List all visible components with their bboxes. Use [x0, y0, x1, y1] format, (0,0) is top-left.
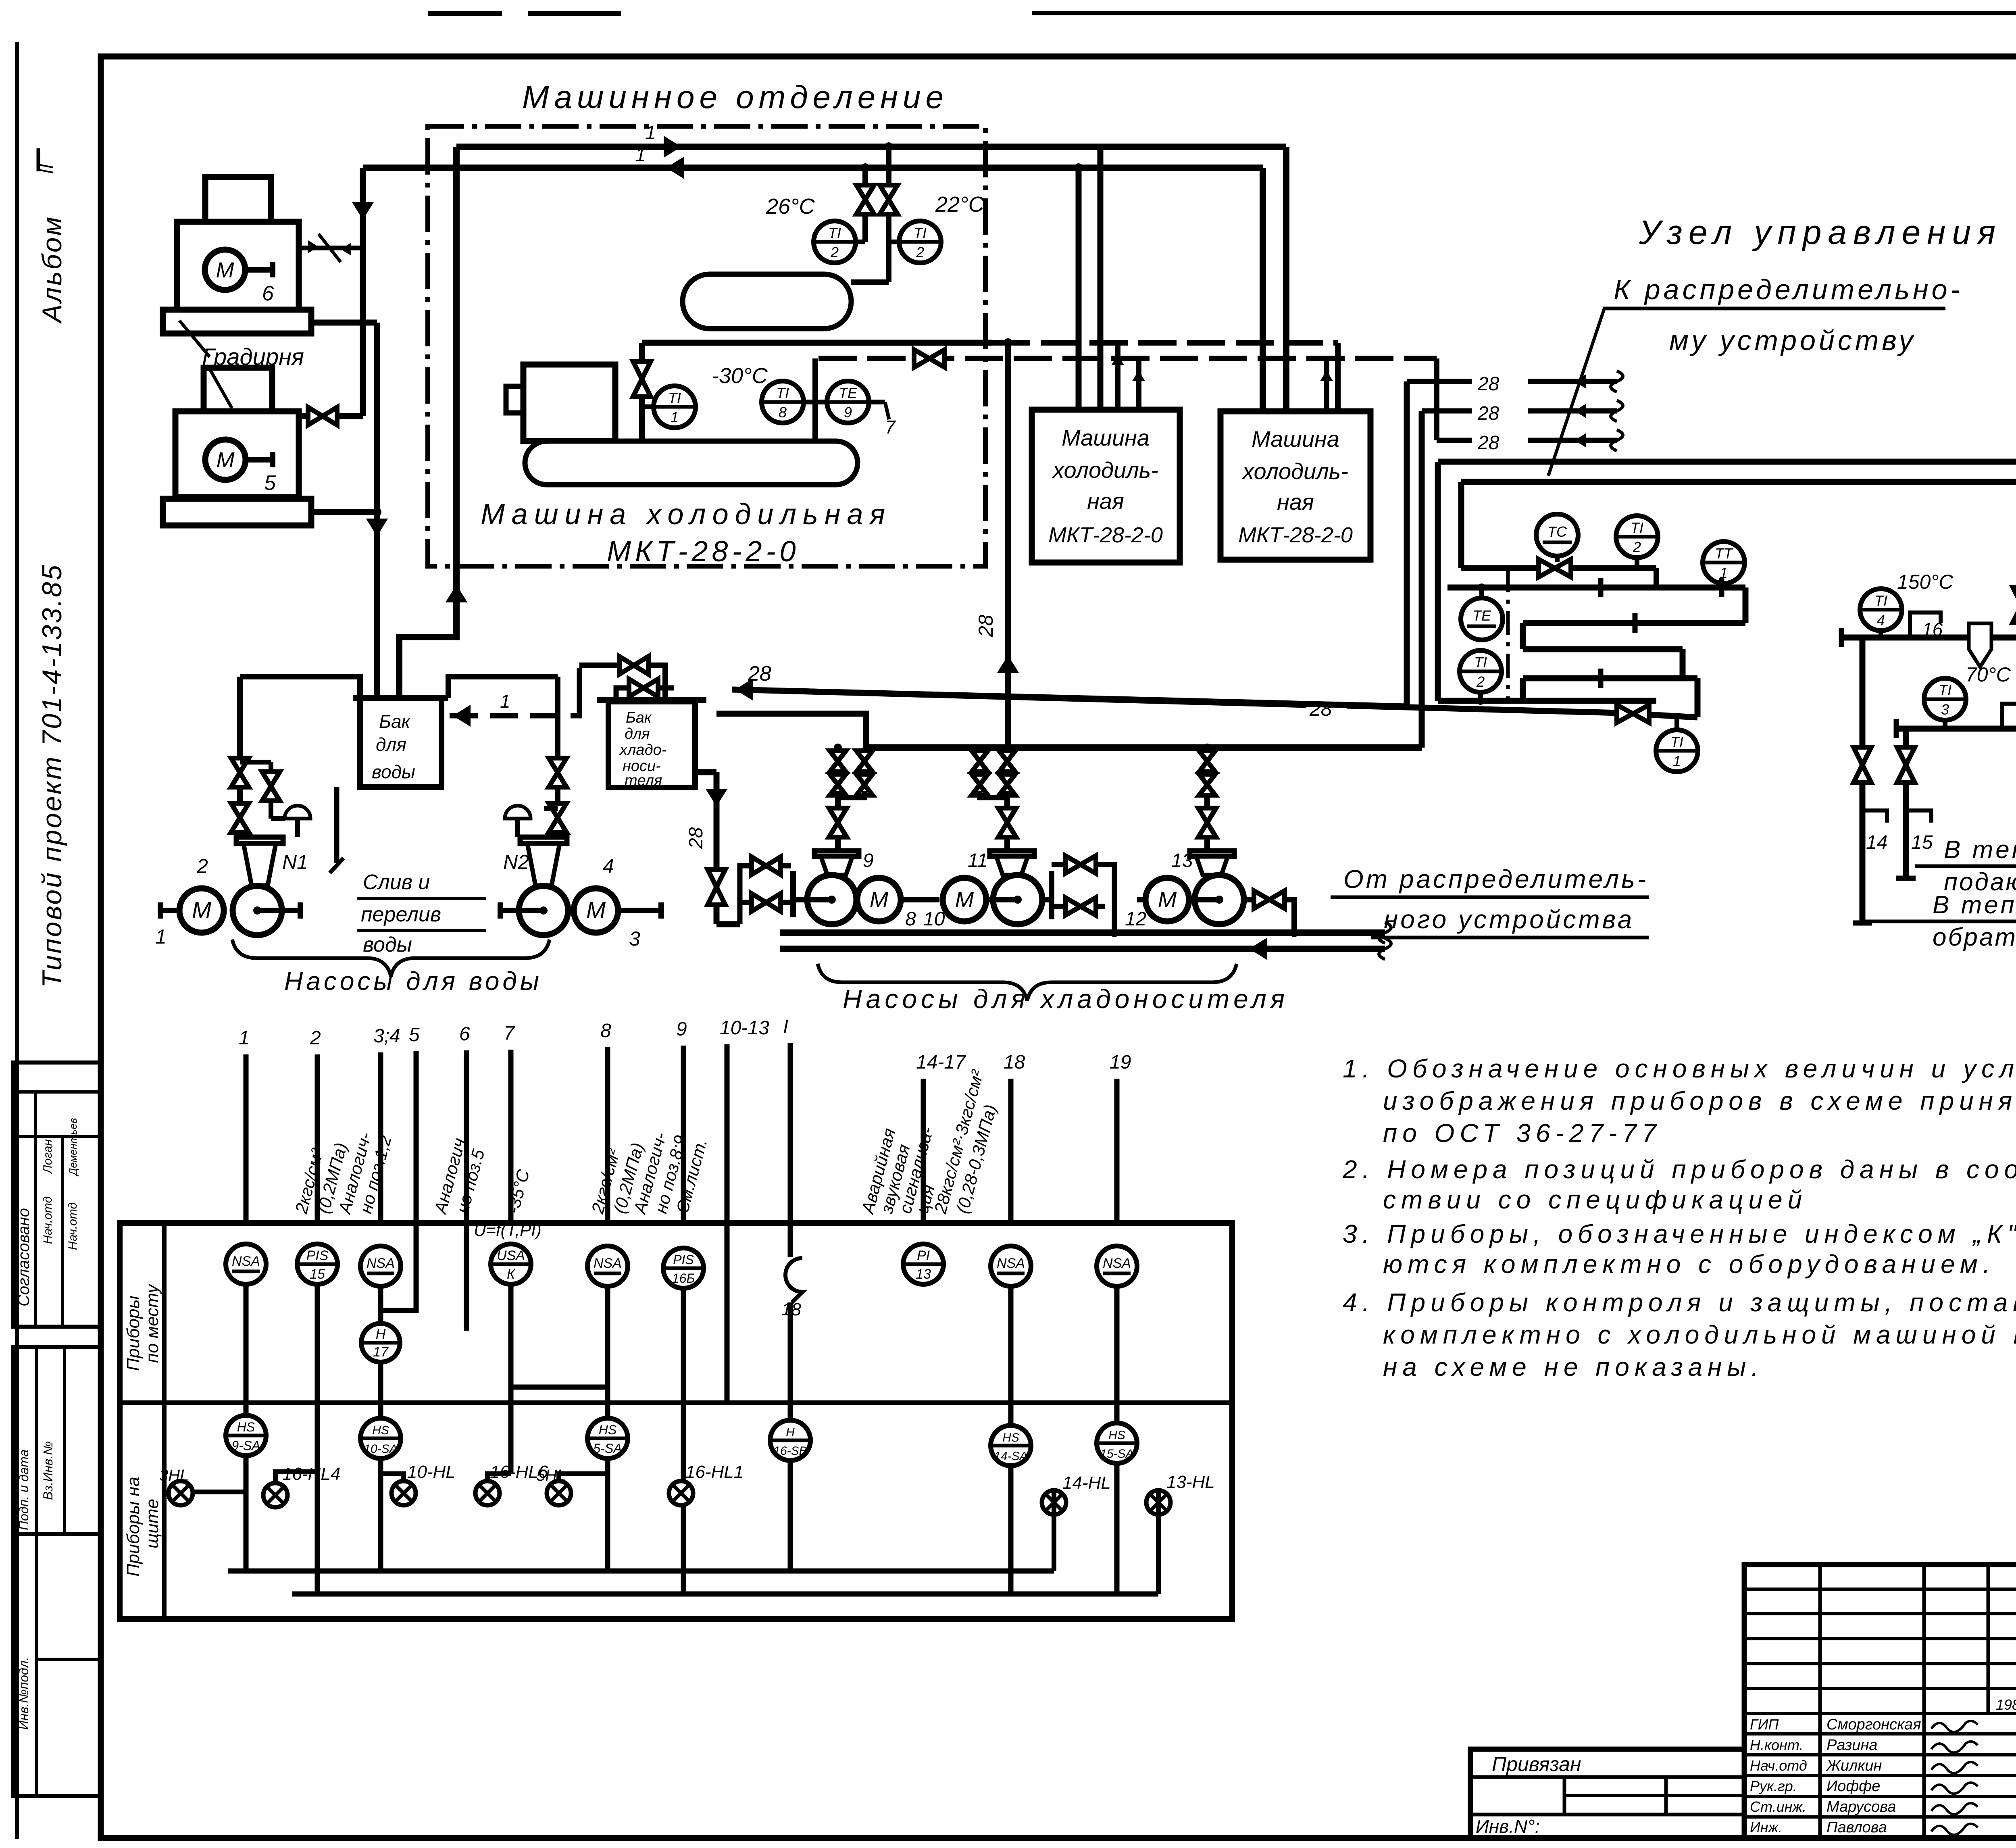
- svg-text:Машина холодильная: Машина холодильная: [481, 498, 891, 531]
- svg-text:Приборы на: Приборы на: [123, 1477, 143, 1577]
- suction column pump3: [1204, 748, 1210, 851]
- svg-text:ная: ная: [1277, 489, 1314, 515]
- svg-text:3;4: 3;4: [373, 1025, 400, 1047]
- svg-text:Нач.отд: Нач.отд: [66, 1202, 79, 1250]
- pipe 1 riser to machine box 3: [1283, 147, 1289, 411]
- svg-text:1984: 1984: [1996, 1696, 2016, 1713]
- svg-text:ТI: ТI: [1939, 682, 1951, 698]
- svg-text:комплектно с холодильной ма: комплектно с холодильной машиной МКТ-28-…: [1383, 1320, 2016, 1349]
- svg-text:7: 7: [885, 417, 896, 438]
- water pump 1 hat: [236, 837, 283, 844]
- brine return line 28 into tank: [732, 690, 1407, 706]
- svg-text:1: 1: [671, 409, 679, 425]
- 28 stub line 2: [1422, 408, 1472, 414]
- brine pump 3: [1195, 875, 1244, 924]
- lamp 10-HL: [392, 1481, 416, 1505]
- fan motor M6: [205, 250, 245, 290]
- svg-text:14-17: 14-17: [916, 1052, 966, 1073]
- svg-text:16Б: 16Б: [672, 1271, 695, 1285]
- svg-text:5: 5: [409, 1024, 420, 1046]
- instrument NSA col1: [226, 1244, 266, 1284]
- instrument PIS-15: [297, 1244, 337, 1284]
- svg-text:К распределительно-: К распределительно-: [1614, 274, 1963, 305]
- svg-text:17: 17: [373, 1344, 389, 1360]
- svg-text:ТI: ТI: [1474, 654, 1487, 671]
- svg-text:6: 6: [459, 1023, 470, 1045]
- bracket 14: [1862, 810, 1887, 823]
- brine pump suction manifold: [866, 744, 1422, 751]
- svg-text:хладо-: хладо-: [619, 742, 666, 758]
- svg-text:2: 2: [1633, 539, 1641, 555]
- svg-text:Нач.отд: Нач.отд: [41, 1196, 54, 1244]
- suction column pump1 pair: [835, 748, 841, 794]
- svg-text:Слив и: Слив и: [363, 871, 430, 894]
- svg-text:Марусова: Марусова: [1826, 1798, 1896, 1815]
- risers to machine box 3 from headers: [1324, 358, 1329, 411]
- 28 stub line 1: [1407, 379, 1472, 384]
- svg-text:НS: НS: [237, 1420, 255, 1434]
- svg-text:МКТ-28-2-0: МКТ-28-2-0: [607, 535, 800, 568]
- header2 riser to stub3: [1434, 358, 1439, 440]
- brace water pumps: [232, 940, 550, 977]
- svg-text:Рук.гр.: Рук.гр.: [1750, 1778, 1797, 1794]
- svg-text:1: 1: [635, 144, 646, 166]
- lamp 14-HL: [1042, 1490, 1066, 1515]
- svg-text:НS: НS: [1002, 1431, 1019, 1444]
- instrument HS-10-SA: [360, 1418, 401, 1458]
- svg-text:МКТ-28-2-0: МКТ-28-2-0: [1238, 523, 1353, 547]
- svg-text:70°С: 70°С: [1966, 663, 2011, 686]
- suction column pump2 pair: [977, 748, 983, 794]
- instrument TI-4: [1860, 589, 1902, 631]
- svg-text:воды: воды: [372, 761, 415, 782]
- svg-text:3: 3: [629, 927, 640, 950]
- water pump 2: [519, 886, 568, 935]
- svg-text:9-SА: 9-SА: [231, 1438, 260, 1453]
- cooling tower chimney: [205, 177, 271, 222]
- svg-text:3HL: 3HL: [159, 1467, 189, 1484]
- instrument TI-2b: [899, 221, 941, 263]
- stub2 riser down to pump suction manifold: [1419, 411, 1425, 748]
- svg-text:Узел управления: Узел управления: [1639, 213, 2002, 251]
- instrument TE: [1461, 598, 1503, 640]
- instrument TI-3: [1924, 678, 1966, 720]
- instrument TI-2a: [814, 221, 856, 263]
- svg-text:Бак: Бак: [626, 709, 652, 726]
- riser x990 into tank top: [396, 697, 402, 698]
- svg-text:9: 9: [844, 404, 852, 421]
- pump2-3 bypass valves: [1042, 897, 1052, 902]
- svg-text:NSА: NSА: [997, 1256, 1025, 1271]
- svg-text:М: М: [870, 887, 889, 912]
- title block Привязан table: [1470, 1749, 1744, 1838]
- svg-text:ная: ная: [1087, 488, 1124, 514]
- svg-text:18: 18: [1004, 1052, 1025, 1073]
- svg-text:16: 16: [1922, 619, 1943, 640]
- brine tank Бак для хладоносителя: [597, 697, 706, 703]
- svg-text:Нач.отд: Нач.отд: [1750, 1757, 1807, 1774]
- svg-text:3: 3: [1941, 701, 1949, 718]
- instrument panel box: [120, 1223, 1232, 1619]
- svg-text:РI: РI: [917, 1248, 930, 1263]
- svg-text:-30°С: -30°С: [712, 364, 768, 388]
- svg-text:по месту: по месту: [142, 1283, 162, 1363]
- svg-text:ются комплектно с оборудова: ются комплектно с оборудованием.: [1383, 1250, 1995, 1279]
- valve branch to TI-2a from pipe2: [862, 168, 868, 242]
- svg-text:3. Приборы, обозначенные инд: 3. Приборы, обозначенные индексом „К" по…: [1343, 1219, 2016, 1248]
- brine pump motor M: [857, 878, 901, 921]
- coil U-turn right 2: [1680, 649, 1686, 678]
- svg-text:М: М: [1158, 887, 1177, 912]
- suction pipe to bypass: [716, 921, 740, 927]
- svg-text:для: для: [376, 734, 406, 755]
- instrument H-17: [361, 1323, 400, 1362]
- coil riser: [1654, 568, 1659, 588]
- svg-text:4: 4: [603, 855, 614, 877]
- pipe 2 (condenser water in) horizontal: [363, 165, 1263, 171]
- svg-text:М: М: [586, 897, 606, 923]
- coil unit bottom: [1438, 698, 1656, 704]
- svg-text:РIS: РIS: [306, 1248, 329, 1263]
- coil pass 1: [1447, 585, 1745, 591]
- svg-text:НS: НS: [372, 1424, 389, 1437]
- svg-text:Согласовано: Согласовано: [15, 1208, 33, 1306]
- cooling tower upper unit: [177, 222, 299, 310]
- compressor block: [523, 365, 615, 441]
- svg-text:8: 8: [905, 908, 916, 930]
- svg-text:13-НL: 13-НL: [1166, 1472, 1215, 1492]
- svg-text:Машина: Машина: [1062, 425, 1150, 450]
- coil pass 3: [1523, 646, 1683, 652]
- svg-text:5: 5: [264, 471, 276, 495]
- instrument HS-9-SA: [226, 1415, 266, 1456]
- svg-text:Бак: Бак: [379, 711, 411, 732]
- sheet left edge: [15, 42, 19, 1839]
- instrument TI-2 top: [1616, 516, 1658, 558]
- svg-text:1. Обозначение основных вели: 1. Обозначение основных величин и условн…: [1343, 1054, 2016, 1083]
- coil unit inner line L2: [1461, 479, 2016, 485]
- stub1 riser down to brine return line: [1404, 381, 1410, 706]
- lamp 13-HL: [1146, 1490, 1170, 1515]
- machine box 3 МКТ-28-2-0: [1220, 411, 1370, 560]
- instrument PI-13: [903, 1244, 943, 1284]
- svg-text:холодиль-: холодиль-: [1052, 457, 1158, 483]
- svg-text:ТТ: ТТ: [1715, 545, 1734, 562]
- pump1 suction tick: [790, 871, 796, 917]
- instrument NSA col3: [360, 1246, 401, 1286]
- svg-text:Сморгонская: Сморгонская: [1826, 1716, 1921, 1733]
- dash-dot stem under TC valve: [1506, 568, 1510, 699]
- pipe lower slab to riser junction: [311, 509, 377, 515]
- instrument NSA col 18: [991, 1246, 1031, 1286]
- svg-text:щите: щите: [142, 1499, 162, 1548]
- svg-text:28: 28: [685, 827, 707, 849]
- svg-text:15: 15: [1911, 832, 1933, 853]
- coil pass 2: [1523, 620, 1745, 626]
- pipe 1 (condenser water out) horizontal: [456, 144, 1286, 150]
- svg-text:1: 1: [155, 925, 167, 948]
- brine pump motor M3k: [1145, 878, 1189, 921]
- svg-text:NSА: NSА: [232, 1254, 260, 1269]
- pipe slab1 to riser x935: [311, 320, 377, 326]
- svg-text:ного устройства: ного устройства: [1384, 905, 1634, 934]
- actuator valve on pump2 feed: [544, 806, 558, 811]
- svg-text:Приборы: Приборы: [123, 1296, 143, 1371]
- svg-text:От распределитель-: От распределитель-: [1343, 865, 1648, 894]
- middle section: [204, 368, 272, 411]
- svg-text:ТI: ТI: [1631, 519, 1643, 536]
- svg-text:5-SА: 5-SА: [593, 1441, 622, 1456]
- svg-text:1: 1: [500, 691, 510, 712]
- svg-text:N2: N2: [503, 851, 529, 873]
- leader line to К распределительному устройству: [1548, 308, 1604, 476]
- svg-text:Подп. и дата: Подп. и дата: [17, 1450, 31, 1530]
- svg-text:ТI: ТI: [1874, 592, 1887, 609]
- svg-text:11: 11: [968, 850, 988, 871]
- brine pump motor M2k: [943, 878, 986, 921]
- svg-text:НS: НS: [1108, 1429, 1125, 1442]
- svg-text:28: 28: [1477, 432, 1500, 454]
- svg-text:МКТ-28-2-0: МКТ-28-2-0: [1048, 523, 1163, 547]
- svg-text:РIS: РIS: [673, 1252, 694, 1267]
- instrument TI-8: [762, 381, 804, 423]
- svg-text:В теплосеть: В теплосеть: [1933, 891, 2016, 919]
- svg-text:Иоффе: Иоффе: [1826, 1778, 1880, 1795]
- svg-text:15-SА: 15-SА: [1100, 1447, 1133, 1460]
- svg-text:14: 14: [1866, 832, 1887, 853]
- panel bus 2: [292, 1592, 1158, 1597]
- svg-text:Н: Н: [376, 1327, 386, 1342]
- riser x935 to water tank: [374, 323, 380, 697]
- svg-text:4: 4: [1877, 612, 1885, 628]
- svg-text:10-13: 10-13: [720, 1017, 769, 1039]
- risers to machine box 2: [1076, 168, 1082, 410]
- svg-text:NSА: NSА: [594, 1256, 622, 1271]
- water tank Бак для воды: [353, 695, 448, 701]
- svg-text:М: М: [216, 258, 234, 282]
- instrument TI-1 on return: [1656, 730, 1698, 772]
- svg-text:для: для: [625, 725, 650, 742]
- svg-text:2: 2: [830, 244, 839, 260]
- svg-text:ТI: ТI: [914, 225, 927, 241]
- svg-text:15: 15: [310, 1267, 325, 1282]
- svg-text:8: 8: [600, 1020, 611, 1042]
- sheet top edge line: [428, 11, 502, 16]
- coil outlet riser to return line: [1695, 678, 1701, 717]
- discharge valve after pump3: [1244, 897, 1254, 902]
- svg-text:теля: теля: [625, 772, 662, 789]
- coil unit outer line L1: [1438, 459, 2016, 465]
- pump1 bypass loop valves: [740, 866, 791, 924]
- lamp 16-HL6: [475, 1481, 500, 1505]
- svg-text:Инв.N°:: Инв.N°:: [1476, 1816, 1540, 1837]
- lamp 3-HL: [169, 1481, 193, 1505]
- evaporator vessel: [525, 441, 858, 485]
- svg-text:Инв.№подл.: Инв.№подл.: [17, 1657, 31, 1730]
- svg-text:2. Номера позиций приборов: 2. Номера позиций приборов даны в соотве…: [1342, 1155, 2016, 1184]
- signal lines from field to panel: [244, 1054, 249, 1223]
- brace brine pumps: [818, 964, 1237, 1001]
- svg-text:2: 2: [916, 244, 924, 260]
- svg-text:Разина: Разина: [1826, 1737, 1878, 1754]
- svg-text:Насосы для воды: Насосы для воды: [284, 967, 542, 996]
- instrument NSA col7: [587, 1246, 628, 1286]
- lamp 16-HL1: [669, 1481, 693, 1505]
- instrument PIS-16Б: [663, 1248, 704, 1288]
- svg-text:обратная: обратная: [1933, 923, 2016, 951]
- instrument USA-K: [491, 1244, 531, 1284]
- water pump 2 hat: [520, 837, 567, 844]
- pipe2 corner riser x900 with valve to condenser circuit: [360, 168, 366, 416]
- water pump motor M2: [574, 888, 618, 933]
- svg-text:НS: НS: [599, 1423, 616, 1437]
- svg-text:U=f(Т,РI): U=f(Т,РI): [474, 1221, 541, 1240]
- svg-text:ТI: ТI: [668, 390, 681, 406]
- bracket 16: [1910, 613, 1941, 638]
- suction valve line: [639, 343, 645, 441]
- panel bus 1: [228, 1569, 1054, 1574]
- mud filter on supply: [1969, 623, 1991, 667]
- svg-text:2: 2: [1476, 673, 1485, 690]
- brine supply main line: [780, 929, 1385, 936]
- instrument HS-15-SA: [1097, 1423, 1137, 1463]
- pipe condenser to riser: [851, 279, 889, 285]
- svg-text:ТС: ТС: [1547, 523, 1567, 540]
- cooling tower lower unit: [175, 411, 299, 497]
- svg-text:Жилкин: Жилкин: [1826, 1757, 1882, 1774]
- pipe to dashed header 1: [642, 340, 992, 346]
- svg-text:26°С: 26°С: [766, 194, 815, 219]
- pipe 2 riser to machine box 3: [1260, 168, 1266, 411]
- svg-text:10-НL: 10-НL: [407, 1462, 456, 1482]
- svg-text:ГИП: ГИП: [1750, 1716, 1779, 1733]
- feed line 1 into tank (dashed with arrow): [450, 713, 573, 719]
- svg-text:I: I: [783, 1016, 788, 1038]
- brine pump 2 hat: [990, 851, 1034, 856]
- water pump feed header from tank: [240, 677, 360, 698]
- svg-text:Дементьев: Дементьев: [67, 1118, 79, 1177]
- coil U-turn left: [1520, 623, 1526, 649]
- svg-text:Н.конт.: Н.конт.: [1750, 1737, 1803, 1753]
- bracket 17: [2002, 704, 2016, 729]
- svg-text:на схеме не показаны.: на схеме не показаны.: [1383, 1352, 1764, 1381]
- margin stamp table Согласовано: [13, 1063, 101, 1327]
- svg-text:9: 9: [863, 850, 874, 871]
- svg-text:13: 13: [916, 1267, 931, 1282]
- svg-text:холодиль-: холодиль-: [1241, 458, 1348, 484]
- svg-text:1: 1: [645, 122, 656, 144]
- svg-text:Машина: Машина: [1252, 426, 1339, 452]
- svg-text:10: 10: [923, 908, 945, 930]
- machine vertical pipe x1132 down to water tank: [399, 147, 456, 697]
- svg-text:14-НL: 14-НL: [1062, 1473, 1111, 1493]
- brine pump 3 hat: [1190, 851, 1234, 856]
- svg-text:28: 28: [975, 615, 997, 638]
- svg-text:ТI: ТI: [776, 385, 789, 401]
- vertical from dashed header2 to evaporator: [812, 358, 818, 441]
- lamp 5-HL: [547, 1481, 571, 1505]
- lower slab: [163, 499, 311, 525]
- margin stamp table Инв.№ подл.: [13, 1534, 101, 1796]
- svg-text:22°С: 22°С: [935, 192, 985, 217]
- dashed refrigerant header 2: [818, 356, 1437, 361]
- svg-text:Н: Н: [786, 1426, 795, 1439]
- svg-text:изображения приборов в схем: изображения приборов в схеме приняты: [1383, 1086, 2016, 1115]
- bracket 15: [1906, 810, 1931, 823]
- svg-text:Логан: Логан: [41, 1139, 54, 1174]
- instrument HS-14-SA: [991, 1425, 1031, 1466]
- dashed refrigerant header 1: [992, 340, 1338, 346]
- tank inlet valve line lower: [616, 688, 630, 700]
- svg-text:NSА: NSА: [367, 1256, 395, 1271]
- svg-text:6: 6: [262, 282, 274, 305]
- svg-text:28: 28: [1477, 403, 1500, 424]
- svg-text:150°С: 150°С: [1897, 571, 1954, 593]
- brine pump 1 hat: [814, 851, 859, 856]
- svg-text:ТI: ТI: [1670, 733, 1683, 750]
- svg-text:1: 1: [1673, 753, 1681, 769]
- instrument NSA col 19: [1097, 1246, 1137, 1286]
- brine return main line: [780, 946, 1385, 952]
- heating supply line: [1841, 635, 2016, 641]
- svg-text:28: 28: [748, 662, 771, 685]
- svg-text:8: 8: [779, 404, 787, 421]
- svg-text:19: 19: [1110, 1052, 1131, 1073]
- svg-text:М: М: [217, 448, 235, 472]
- svg-text:16-НL1: 16-НL1: [685, 1462, 744, 1482]
- svg-text:12: 12: [1125, 908, 1146, 930]
- svg-text:USА: USА: [497, 1248, 525, 1263]
- svg-text:Вз.Инв.№: Вз.Инв.№: [41, 1441, 55, 1500]
- instrument H-16-SB: [770, 1420, 810, 1460]
- tank inlet valve line upper: [579, 663, 620, 668]
- svg-text:2: 2: [310, 1027, 321, 1049]
- compressor flange: [506, 386, 523, 413]
- svg-text:В теплосеть: В теплосеть: [1944, 836, 2016, 864]
- instrument TT-1: [1703, 542, 1745, 583]
- svg-text:2: 2: [196, 855, 208, 877]
- svg-text:Альбом: Альбом: [37, 215, 67, 324]
- water pump 2 suction column: [448, 677, 558, 698]
- water pump motor M1: [179, 888, 224, 933]
- arrow pair at upper unit outlet: [300, 246, 361, 250]
- svg-text:по ОСТ 36-27-77: по ОСТ 36-27-77: [1383, 1119, 1662, 1148]
- fan motor M5: [205, 440, 246, 480]
- overflow line: [334, 787, 339, 863]
- brine pump 2: [993, 875, 1042, 924]
- lamp 16-HL4: [263, 1483, 287, 1507]
- machine box 2 МКТ-28-2-0: [1032, 410, 1180, 563]
- svg-text:К: К: [507, 1267, 516, 1282]
- svg-text:Привязан: Привязан: [1492, 1753, 1581, 1775]
- svg-text:10-SА: 10-SА: [364, 1442, 397, 1456]
- instrument TI-2 lower: [1460, 650, 1502, 692]
- margin stamp table Подп. и дата / Вз.Инв.№: [13, 1347, 101, 1534]
- svg-text:28: 28: [1477, 373, 1500, 395]
- svg-text:Ст.инж.: Ст.инж.: [1750, 1798, 1806, 1815]
- valve line into lower unit: [299, 413, 363, 419]
- brine riser 28 from header1 down to pump suction manifold: [1005, 343, 1011, 748]
- tank outlet down to pump suction: [695, 769, 716, 775]
- instrument TC with control valve: [1536, 514, 1578, 556]
- alarm bell 18: [785, 1258, 802, 1302]
- valve branch to TI-2b from pipe1: [886, 147, 891, 282]
- svg-text:ТI: ТI: [828, 225, 841, 241]
- svg-text:9: 9: [676, 1019, 687, 1040]
- water pump 1: [233, 886, 282, 935]
- svg-text:14-SА: 14-SА: [994, 1450, 1027, 1463]
- svg-text:ствии со спецификацией: ствии со спецификацией: [1383, 1185, 1807, 1214]
